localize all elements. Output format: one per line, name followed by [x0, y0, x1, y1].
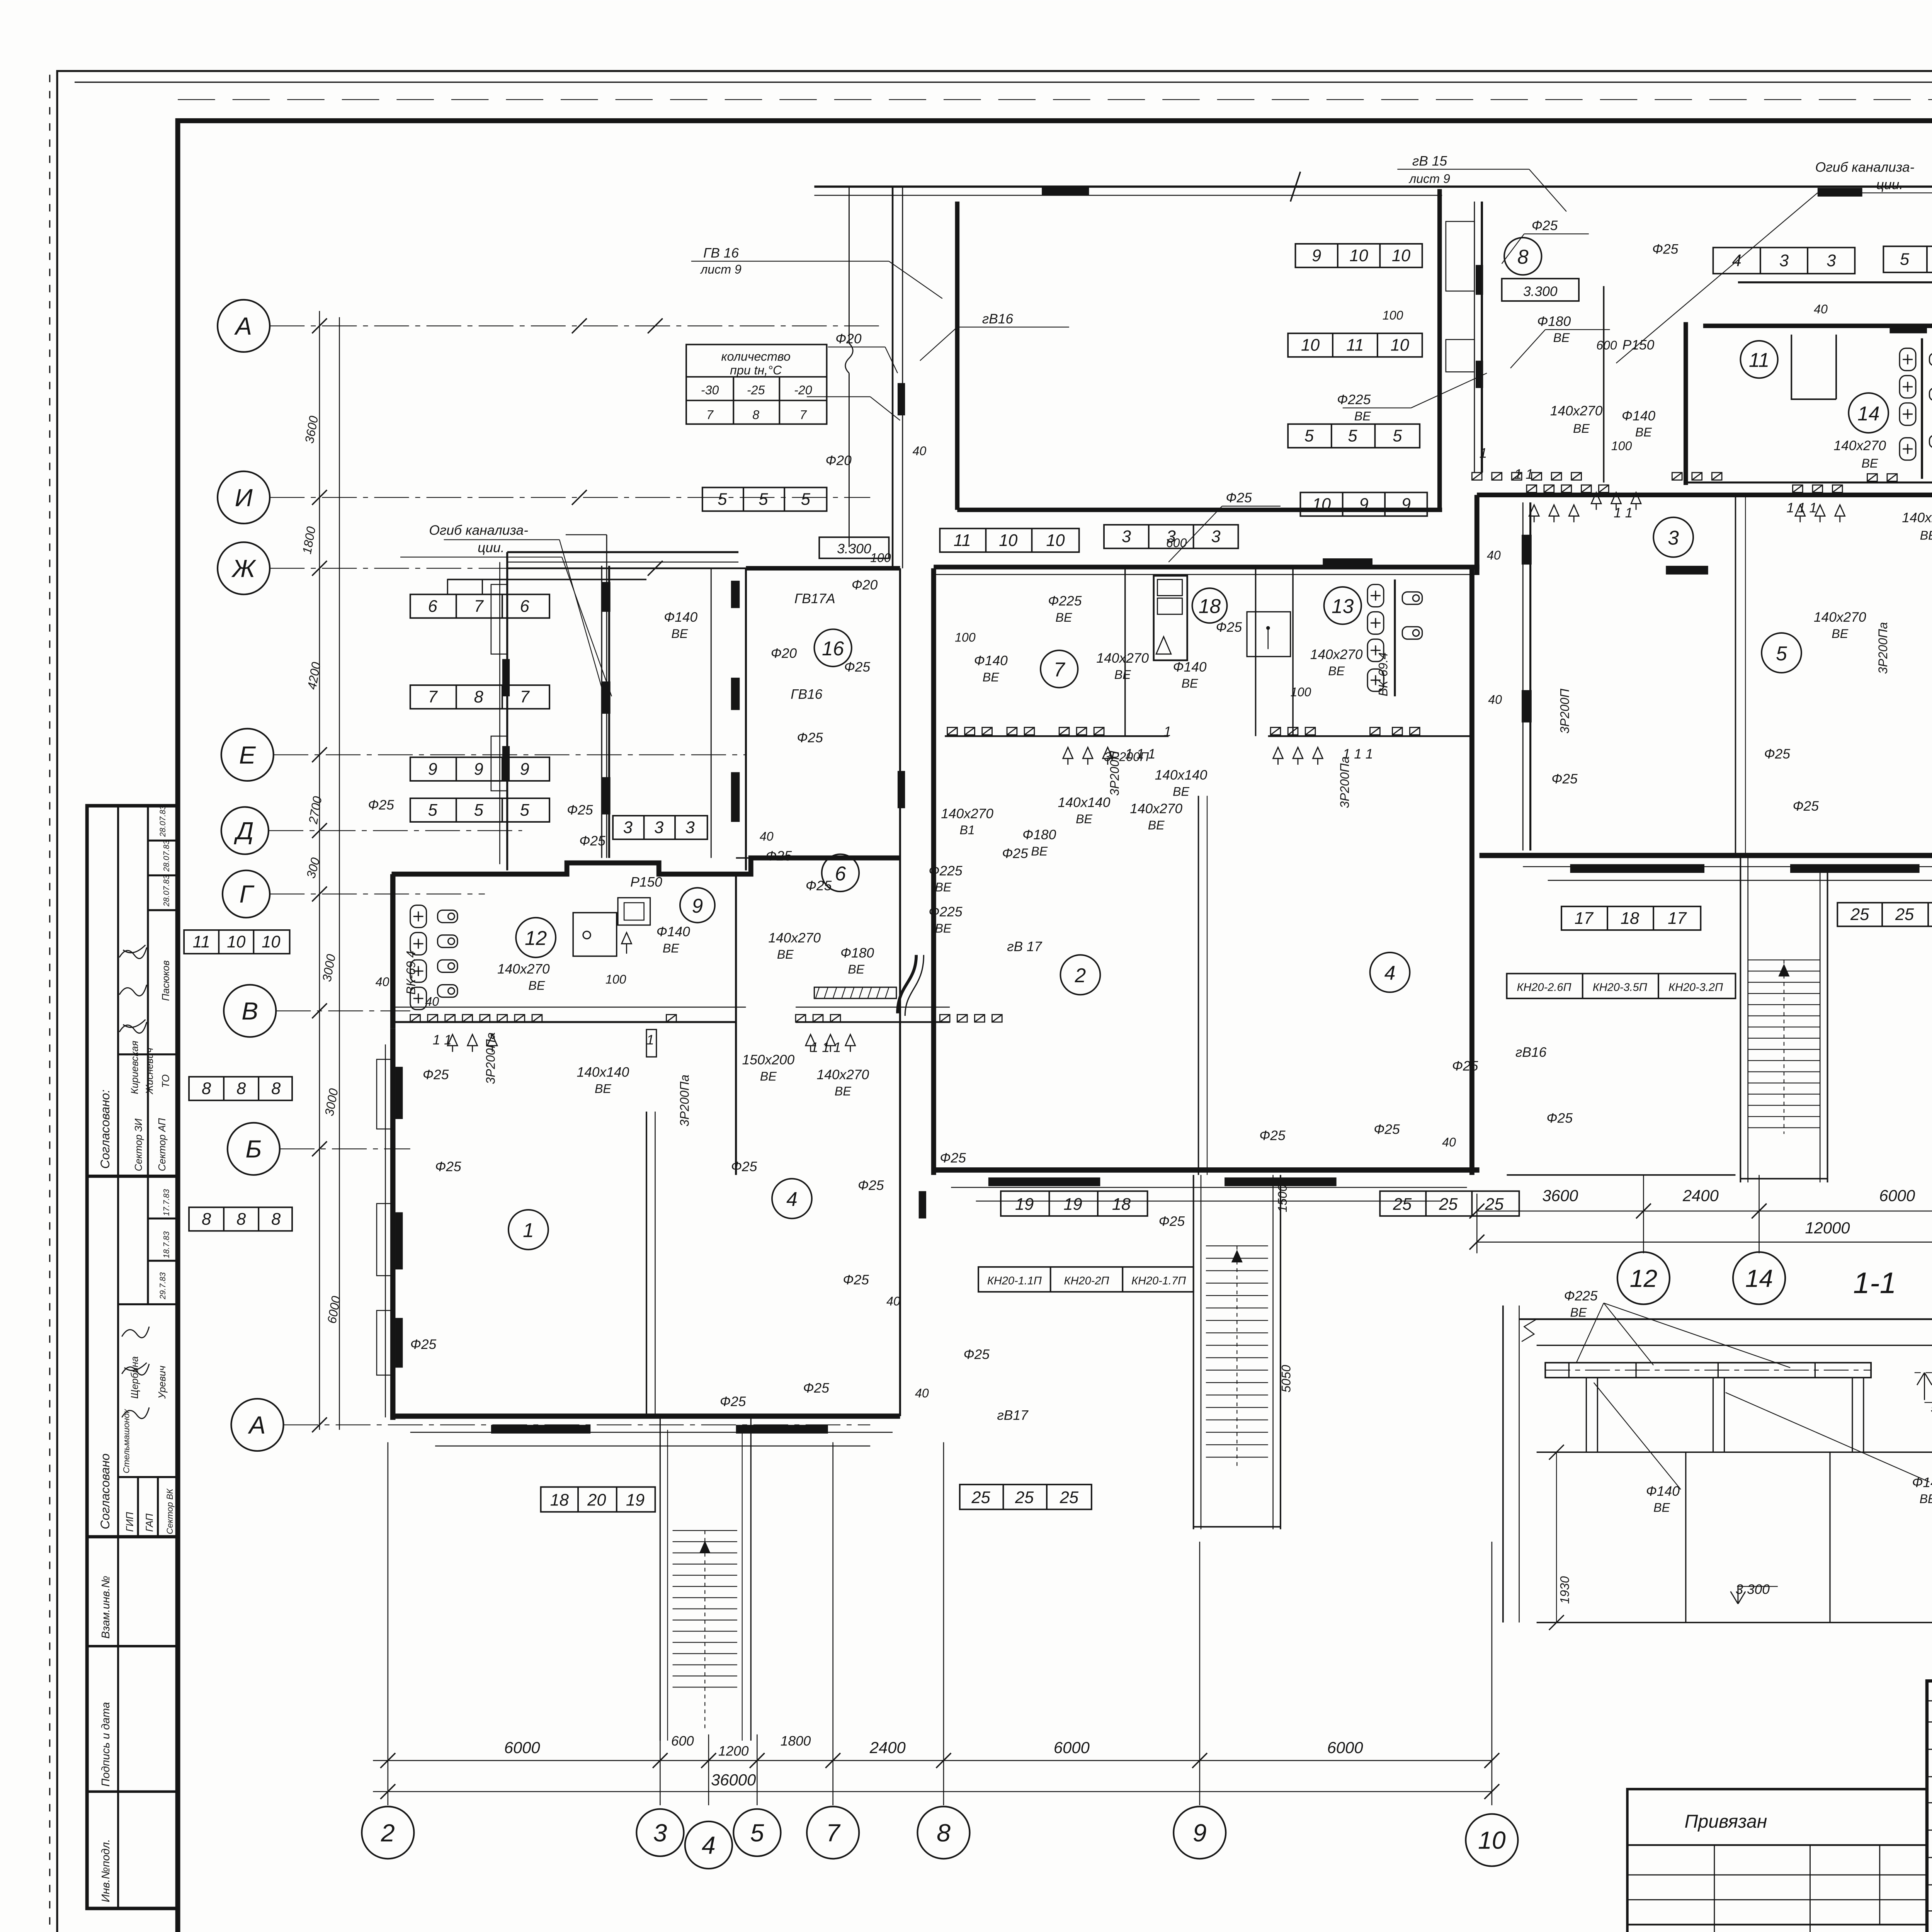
svg-text:3Р200П: 3Р200П	[1558, 689, 1571, 734]
svg-text:при tн,°С: при tн,°С	[730, 363, 782, 377]
svg-text:140х270: 140х270	[1310, 647, 1363, 662]
svg-text:17: 17	[1575, 909, 1594, 928]
svg-text:40: 40	[915, 1386, 929, 1400]
svg-text:ВЕ: ВЕ	[1354, 409, 1371, 423]
svg-text:ВЕ: ВЕ	[935, 880, 951, 894]
svg-text:Сектор ЗИ: Сектор ЗИ	[133, 1118, 144, 1171]
center block bottom wall	[934, 1169, 1479, 1171]
svg-text:10: 10	[227, 933, 245, 951]
left wing right wall pair (corridor)	[900, 568, 900, 1416]
svg-text:3.300: 3.300	[1735, 1582, 1770, 1597]
level marks	[1917, 1372, 1932, 1400]
svg-text:3: 3	[654, 818, 663, 837]
svg-text:12000: 12000	[1805, 1219, 1850, 1237]
room 16 / 6 strip	[736, 874, 736, 1175]
svg-text:ВЕ: ВЕ	[760, 1069, 777, 1083]
svg-text:Д: Д	[234, 817, 253, 845]
svg-text:ВЕ: ВЕ	[1553, 331, 1570, 345]
svg-text:40: 40	[760, 829, 774, 843]
top-center block verticals	[849, 187, 849, 343]
room 13 toilets (center strip right)	[1367, 585, 1384, 607]
svg-text:-30: -30	[701, 383, 719, 397]
svg-text:17: 17	[1668, 909, 1687, 928]
svg-text:Б: Б	[245, 1135, 262, 1163]
svg-text:140х270: 140х270	[768, 930, 821, 946]
svg-text:8: 8	[202, 1210, 211, 1228]
room 14 toilets	[1900, 348, 1916, 371]
svg-text:В: В	[241, 997, 258, 1025]
svg-text:Ф25: Ф25	[423, 1067, 449, 1082]
below room 12 (left wing)	[410, 1015, 420, 1022]
svg-text:2400: 2400	[1682, 1186, 1719, 1204]
svg-text:6000: 6000	[1054, 1738, 1090, 1757]
svg-text:140х270: 140х270	[1833, 438, 1886, 453]
signatures scribbles in stamp	[119, 945, 149, 1419]
svg-text:КН20-2.6П: КН20-2.6П	[1517, 981, 1571, 994]
helper: each table 3 cells	[410, 594, 549, 618]
group 1 (648-946)	[118, 806, 119, 1176]
left wall window niches	[377, 527, 1932, 1375]
slab band	[1545, 1363, 1871, 1378]
svg-text:10: 10	[262, 933, 280, 951]
svg-text:140х270: 140х270	[817, 1067, 869, 1082]
svg-text:40: 40	[425, 995, 439, 1009]
svg-text:Ф25: Ф25	[1374, 1122, 1400, 1137]
svg-text:140х270: 140х270	[497, 962, 550, 977]
svg-text:Подпись и дата: Подпись и дата	[100, 1702, 112, 1787]
svg-text:Ж: Ж	[231, 554, 257, 582]
svg-text:Ф25: Ф25	[579, 833, 605, 849]
svg-text:1 1: 1 1	[1614, 505, 1633, 520]
svg-text:ВЕ: ВЕ	[1920, 529, 1932, 543]
small sink room 9	[618, 898, 650, 925]
left wing exterior left wall	[392, 1028, 394, 1420]
svg-text:100: 100	[605, 972, 626, 986]
svg-text:19: 19	[626, 1491, 645, 1510]
svg-text:2: 2	[381, 1819, 395, 1847]
svg-text:-20: -20	[794, 383, 812, 397]
svg-text:количество: количество	[721, 349, 790, 363]
svg-text:140х270: 140х270	[1130, 801, 1182, 816]
top exterior wall	[385, 172, 1932, 1740]
svg-text:Ф20: Ф20	[835, 331, 862, 346]
svg-text:1800: 1800	[781, 1734, 811, 1749]
stair B (center shaft)	[1206, 1246, 1268, 1467]
center block top strip	[934, 566, 1479, 568]
svg-text:Ф140: Ф140	[1912, 1475, 1932, 1490]
svg-text:5: 5	[718, 490, 727, 509]
1930 dim	[1556, 1452, 1557, 1622]
svg-text:16: 16	[822, 637, 844, 660]
количество table	[686, 345, 827, 424]
below rooms 6/16 strip	[796, 1015, 806, 1022]
right of room4 radiator	[919, 1191, 926, 1219]
svg-text:5: 5	[428, 801, 438, 820]
center block strip vent row	[947, 728, 957, 735]
svg-text:Ф20: Ф20	[771, 646, 797, 661]
svg-text:12: 12	[525, 927, 547, 949]
svg-text:3: 3	[653, 1819, 667, 1847]
svg-text:гВ 15: гВ 15	[1412, 153, 1447, 168]
room 11 tub	[1791, 335, 1836, 399]
svg-text:11: 11	[1749, 349, 1769, 371]
svg-text:5: 5	[759, 490, 768, 509]
svg-text:1 1: 1 1	[1514, 467, 1533, 482]
svg-text:40: 40	[1814, 302, 1828, 316]
svg-text:18: 18	[1199, 595, 1221, 617]
svg-text:5: 5	[1304, 427, 1314, 446]
svg-text:7: 7	[1054, 658, 1066, 681]
svg-text:5: 5	[520, 801, 530, 820]
group 2 (946-1236)	[118, 1176, 119, 1537]
lower boxes	[118, 1537, 119, 1908]
svg-text:6: 6	[520, 597, 530, 616]
svg-text:25: 25	[1060, 1488, 1079, 1507]
svg-text:8: 8	[937, 1819, 951, 1847]
svg-text:40: 40	[1442, 1135, 1456, 1149]
vent wall of strip	[945, 736, 1168, 736]
svg-text:ВЕ: ВЕ	[595, 1082, 611, 1095]
right block (rooms 3,5)	[1476, 495, 1478, 575]
svg-text:Инв.№подл.: Инв.№подл.	[100, 1839, 112, 1902]
stair A (south entrance, below left wing)	[673, 1531, 737, 1728]
svg-text:1: 1	[1480, 446, 1487, 461]
svg-text:Ф25: Ф25	[1452, 1059, 1478, 1074]
svg-text:28.07.83: 28.07.83	[158, 805, 167, 837]
svg-text:ВЕ: ВЕ	[1328, 664, 1345, 678]
svg-text:11: 11	[193, 933, 210, 951]
room 8 big area walls	[957, 509, 1442, 511]
svg-text:1930: 1930	[1558, 1576, 1571, 1604]
svg-text:3: 3	[685, 818, 695, 837]
small "1 1" marks	[433, 446, 1932, 1055]
svg-text:40: 40	[376, 975, 389, 989]
columns under slab	[1586, 1378, 1597, 1452]
svg-text:8: 8	[752, 408, 759, 422]
svg-text:150х200: 150х200	[742, 1052, 794, 1067]
svg-text:ВЕ: ВЕ	[1861, 456, 1878, 470]
svg-text:140х270: 140х270	[1096, 651, 1149, 666]
svg-text:Ф140: Ф140	[974, 653, 1008, 668]
svg-text:1 1 1: 1 1 1	[1125, 747, 1156, 762]
svg-text:Ф25: Ф25	[1216, 620, 1242, 635]
dim lines	[1477, 1211, 1932, 1211]
svg-text:18.7.83: 18.7.83	[162, 1231, 171, 1258]
svg-text:Ф140: Ф140	[656, 924, 690, 939]
svg-text:6: 6	[835, 862, 846, 884]
svg-text:9: 9	[1359, 495, 1368, 514]
svg-text:Ф25: Ф25	[435, 1159, 461, 1174]
svg-text:19: 19	[1015, 1195, 1034, 1214]
svg-text:40: 40	[886, 1294, 900, 1308]
svg-text:ВЕ: ВЕ	[983, 670, 999, 684]
svg-text:гВ16: гВ16	[982, 311, 1014, 327]
risers right of room8	[1474, 202, 1475, 473]
svg-text:ТО: ТО	[161, 1074, 172, 1088]
svg-text:20: 20	[587, 1491, 606, 1510]
svg-text:40: 40	[1488, 692, 1502, 706]
strip dividers	[1125, 567, 1126, 736]
svg-text:Огиб канализа-: Огиб канализа-	[1815, 160, 1915, 175]
svg-text:29.7.83: 29.7.83	[158, 1272, 167, 1299]
svg-text:Ф25: Ф25	[940, 1151, 966, 1166]
svg-text:6000: 6000	[1327, 1738, 1363, 1757]
svg-text:10: 10	[1046, 531, 1065, 550]
svg-text:Е: Е	[239, 741, 256, 769]
svg-text:10: 10	[1478, 1827, 1506, 1854]
svg-text:Пасюков: Пасюков	[161, 960, 172, 1001]
left wing south entrance stair walls	[660, 1416, 660, 1741]
svg-text:ВЕ: ВЕ	[848, 963, 864, 976]
svg-text:19: 19	[1063, 1195, 1082, 1214]
axis dash-dot lines	[269, 326, 885, 1425]
svg-text:Сектор ВК: Сектор ВК	[165, 1488, 175, 1534]
svg-text:25: 25	[1895, 905, 1914, 924]
window sill lines below bottom walls	[410, 1432, 893, 1433]
svg-text:Уревич: Уревич	[157, 1366, 168, 1399]
svg-text:Щербина: Щербина	[129, 1356, 140, 1399]
svg-text:9: 9	[1312, 247, 1321, 265]
svg-text:Ф180: Ф180	[840, 946, 874, 961]
hatched horizontal duct	[814, 987, 896, 998]
svg-text:Ф225: Ф225	[1337, 392, 1371, 407]
svg-text:Р150: Р150	[630, 874, 662, 889]
svg-text:Ф25: Ф25	[858, 1178, 884, 1193]
svg-text:Ф180: Ф180	[1537, 314, 1571, 329]
svg-text:Ф25: Ф25	[1652, 242, 1679, 257]
svg-text:1 1 1: 1 1 1	[1343, 747, 1373, 762]
room 12 toilets	[410, 905, 427, 928]
center wing / stair B shaft	[1193, 1175, 1194, 1529]
svg-text:Ф25: Ф25	[844, 660, 871, 675]
svg-text:3Р200П: 3Р200П	[1108, 751, 1122, 796]
svg-text:100: 100	[870, 551, 891, 565]
rooms 2/4 divider	[1198, 796, 1199, 1175]
svg-text:ции.: ции.	[478, 540, 504, 555]
svg-text:7: 7	[826, 1819, 841, 1847]
svg-text:2400: 2400	[869, 1738, 906, 1757]
svg-text:10: 10	[1391, 336, 1409, 355]
svg-text:Ф25: Ф25	[1793, 799, 1819, 814]
svg-text:Привязан: Привязан	[1685, 1811, 1767, 1832]
svg-text:600: 600	[671, 1734, 694, 1749]
svg-text:ВЕ: ВЕ	[1832, 627, 1848, 641]
svg-text:5050: 5050	[1279, 1365, 1293, 1393]
svg-text:3Р200Па: 3Р200Па	[1338, 757, 1352, 808]
svg-text:Г: Г	[240, 880, 255, 908]
svg-text:18: 18	[1621, 909, 1639, 928]
svg-text:ВЕ: ВЕ	[1182, 677, 1198, 690]
S-bend duct	[898, 955, 916, 1013]
Привязан table	[1628, 1789, 1927, 1932]
svg-text:8: 8	[202, 1080, 211, 1098]
svg-text:12: 12	[1630, 1264, 1658, 1292]
svg-text:9: 9	[692, 895, 703, 917]
svg-text:И: И	[235, 484, 253, 512]
svg-text:5: 5	[801, 490, 811, 509]
svg-text:7: 7	[428, 688, 438, 706]
svg-text:Ф25: Ф25	[1546, 1111, 1573, 1126]
svg-text:100: 100	[955, 631, 976, 645]
svg-text:10: 10	[1312, 495, 1331, 514]
svg-text:1200: 1200	[718, 1743, 749, 1759]
svg-text:ВЕ: ВЕ	[1056, 611, 1072, 624]
svg-text:ВЕ: ВЕ	[1573, 422, 1590, 435]
svg-text:Ф20: Ф20	[852, 577, 878, 592]
svg-text:Ф25: Ф25	[1002, 846, 1028, 861]
svg-text:Ф25: Ф25	[806, 878, 832, 893]
radiators (black bars)	[395, 187, 1932, 1434]
svg-text:ВЕ: ВЕ	[528, 978, 545, 992]
svg-text:100: 100	[1291, 685, 1311, 699]
svg-text:5: 5	[750, 1819, 764, 1847]
svg-text:Ф25: Ф25	[803, 1381, 829, 1396]
svg-text:Ф140: Ф140	[1622, 408, 1655, 423]
svg-text:Огиб канализа-: Огиб канализа-	[429, 523, 528, 538]
svg-text:10: 10	[1301, 336, 1320, 355]
svg-text:Ф140: Ф140	[1173, 660, 1206, 675]
svg-text:Жисневич: Жисневич	[145, 1048, 155, 1095]
section drawing	[1503, 1306, 1932, 1630]
svg-text:3Р200Па: 3Р200Па	[1876, 622, 1890, 674]
divider between rooms 1 and 4	[646, 1112, 647, 1416]
svg-text:ВЕ: ВЕ	[777, 947, 794, 961]
svg-text:140х140: 140х140	[1058, 795, 1111, 810]
svg-text:1500: 1500	[1276, 1185, 1289, 1213]
leader lines (subset)	[444, 169, 1932, 696]
svg-text:Ф25: Ф25	[1226, 490, 1252, 505]
svg-text:ВЕ: ВЕ	[1076, 812, 1092, 826]
svg-text:7: 7	[706, 408, 714, 422]
svg-text:6: 6	[428, 597, 438, 616]
svg-text:КН20-3.2П: КН20-3.2П	[1668, 981, 1723, 994]
svg-text:В1: В1	[959, 823, 975, 837]
upper-left block left wall	[507, 552, 508, 871]
svg-text:10: 10	[999, 531, 1017, 550]
svg-text:7: 7	[474, 597, 484, 616]
room 14 toilet partition	[1922, 338, 1922, 479]
svg-text:28.07.83: 28.07.83	[162, 840, 171, 872]
stair C shaft	[1740, 858, 1741, 1182]
name rows	[1927, 1701, 1932, 1701]
svg-text:7: 7	[799, 408, 807, 422]
svg-text:600: 600	[1596, 338, 1617, 352]
svg-text:3Р200Па: 3Р200Па	[484, 1032, 498, 1084]
svg-text:9: 9	[1193, 1819, 1207, 1847]
top-right block (rooms 11/14)	[1738, 282, 1932, 283]
svg-text:25: 25	[1393, 1195, 1412, 1214]
svg-text:3: 3	[1122, 527, 1131, 546]
svg-text:3Р200Па: 3Р200Па	[677, 1075, 691, 1126]
left paper dashed edge	[49, 75, 50, 1932]
svg-text:Ф25: Ф25	[797, 730, 823, 745]
svg-text:ВК-69.4: ВК-69.4	[1376, 652, 1390, 696]
svg-text:6000: 6000	[1879, 1186, 1915, 1204]
svg-text:Стельмашонок: Стельмашонок	[122, 1409, 131, 1473]
svg-text:ВЕ: ВЕ	[671, 627, 688, 641]
svg-text:Ф140: Ф140	[664, 610, 697, 625]
rotated vertical labels	[484, 622, 1890, 1393]
svg-text:ВЕ: ВЕ	[1173, 785, 1189, 799]
svg-text:140х140: 140х140	[1155, 768, 1207, 783]
svg-text:25: 25	[1015, 1488, 1034, 1507]
svg-text:ВЕ: ВЕ	[1920, 1492, 1932, 1506]
svg-text:140х270: 140х270	[941, 806, 993, 821]
svg-text:40: 40	[913, 444, 927, 458]
svg-text:ВЕ: ВЕ	[1148, 818, 1165, 832]
svg-text:5: 5	[1393, 427, 1402, 446]
svg-text:1-1: 1-1	[1853, 1266, 1896, 1299]
svg-text:ГАП: ГАП	[145, 1514, 155, 1532]
svg-text:8: 8	[1517, 245, 1529, 268]
svg-text:Ф25: Ф25	[567, 803, 593, 818]
svg-text:КН20-2П: КН20-2П	[1064, 1275, 1109, 1287]
svg-text:3: 3	[1827, 252, 1836, 270]
КН boxes	[978, 570, 1932, 1292]
svg-text:Ф25: Ф25	[963, 1347, 990, 1362]
svg-text:ГВ 16: ГВ 16	[703, 245, 739, 260]
svg-text:4: 4	[1384, 962, 1396, 984]
north-left duct verticals	[601, 566, 602, 858]
svg-text:КН20-3.5П: КН20-3.5П	[1593, 981, 1647, 994]
svg-text:ВЕ: ВЕ	[1114, 668, 1131, 682]
svg-text:8: 8	[271, 1210, 281, 1228]
svg-text:3.300: 3.300	[837, 541, 871, 556]
svg-text:лист 9: лист 9	[1408, 172, 1450, 185]
lower floor box	[1537, 1452, 1932, 1452]
svg-text:Согласовано: Согласовано	[98, 1454, 112, 1529]
svg-text:ВЕ: ВЕ	[1653, 1501, 1670, 1515]
svg-text:Взам.инв.№: Взам.инв.№	[100, 1576, 112, 1639]
svg-text:11: 11	[1346, 336, 1364, 355]
svg-text:Ф25: Ф25	[1764, 747, 1790, 762]
svg-text:Ф25: Ф25	[731, 1159, 757, 1174]
svg-text:ГВ17А: ГВ17А	[794, 591, 835, 606]
svg-text:Согласовано:: Согласовано:	[98, 1090, 112, 1169]
svg-text:11: 11	[954, 531, 971, 550]
svg-text:ГВ16: ГВ16	[791, 687, 823, 702]
svg-text:8: 8	[236, 1080, 246, 1098]
svg-text:Ф20: Ф20	[825, 453, 852, 468]
svg-text:9: 9	[520, 760, 529, 779]
svg-text:8: 8	[474, 688, 483, 706]
room 12 block top wall	[391, 858, 900, 874]
svg-text:ВЕ: ВЕ	[1570, 1306, 1587, 1320]
svg-text:140х270: 140х270	[1550, 403, 1603, 418]
vertical dimension line	[320, 311, 339, 1430]
svg-text:7: 7	[520, 688, 530, 706]
svg-text:Ф25: Ф25	[1551, 771, 1578, 786]
svg-text:гВ17: гВ17	[997, 1408, 1029, 1423]
svg-text:Кириевская: Кириевская	[129, 1041, 140, 1094]
svg-text:Ф180: Ф180	[1022, 827, 1056, 842]
svg-text:100: 100	[1611, 439, 1632, 453]
svg-text:3: 3	[1779, 252, 1789, 270]
svg-text:гВ16: гВ16	[1515, 1045, 1547, 1060]
svg-text:Ф25: Ф25	[410, 1337, 437, 1352]
stair C (right corridor)	[1748, 960, 1820, 1134]
svg-text:1 1: 1 1	[433, 1032, 452, 1048]
svg-text:3600: 3600	[1542, 1186, 1578, 1204]
svg-text:Ф25: Ф25	[1532, 218, 1558, 233]
svg-text:-25: -25	[747, 383, 765, 397]
svg-text:КН20-1.1П: КН20-1.1П	[987, 1275, 1042, 1287]
svg-text:Ф225: Ф225	[1048, 594, 1082, 609]
svg-text:9: 9	[474, 760, 483, 779]
svg-text:Ф25: Ф25	[1159, 1214, 1185, 1229]
svg-text:14: 14	[1857, 402, 1879, 425]
svg-text:Ф225: Ф225	[1564, 1289, 1597, 1304]
